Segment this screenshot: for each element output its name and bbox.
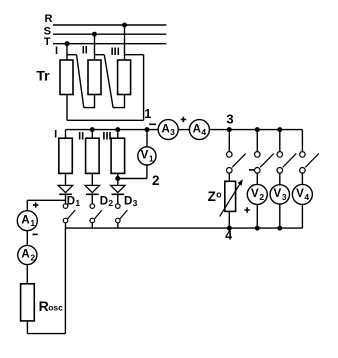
svg-text:Tr: Tr bbox=[36, 67, 50, 83]
ammeter A3 bbox=[158, 120, 178, 140]
svg-text:A: A bbox=[21, 214, 29, 226]
wire node2 horizontal bbox=[118, 178, 147, 180]
svg-text:3: 3 bbox=[226, 112, 233, 127]
wire V3 bottom lead bbox=[279, 204, 281, 228]
plus sign A4 bbox=[181, 117, 186, 122]
voltmeter V4 bbox=[292, 184, 312, 204]
primary winding III bbox=[118, 60, 131, 95]
junction dot node 1 bbox=[145, 127, 150, 132]
impedance Zo box bbox=[225, 181, 236, 211]
label Rosc bbox=[39, 298, 64, 314]
svg-text:V: V bbox=[251, 188, 259, 200]
svg-text:A: A bbox=[193, 123, 201, 135]
resistor Rosc bbox=[21, 284, 35, 321]
switch S-D3 bbox=[116, 204, 128, 228]
wire V2 bottom lead bbox=[256, 204, 258, 228]
wire tap I from T bbox=[66, 44, 68, 60]
svg-text:1: 1 bbox=[30, 218, 35, 228]
wire U-link I-II bbox=[84, 95, 95, 108]
svg-text:3: 3 bbox=[282, 192, 287, 202]
secondary winding II bbox=[86, 138, 100, 173]
minus sign A3 bbox=[149, 123, 156, 125]
svg-text:I: I bbox=[55, 45, 58, 57]
wire A3-A4 link bbox=[178, 129, 190, 131]
junction dot node3 V2 bbox=[255, 127, 260, 132]
junction dot on T line bbox=[65, 41, 70, 46]
svg-text:4: 4 bbox=[304, 192, 309, 202]
wire A2-Rosc link bbox=[26, 264, 28, 283]
ammeter A2 bbox=[18, 245, 37, 264]
svg-text:V: V bbox=[296, 188, 304, 200]
minus sign V2 bbox=[249, 169, 254, 171]
wire secondary I top lead bbox=[65, 130, 67, 139]
svg-text:2: 2 bbox=[108, 198, 113, 208]
svg-text:D: D bbox=[124, 195, 132, 207]
svg-text:4: 4 bbox=[201, 127, 206, 137]
wire jog winding III bbox=[125, 54, 144, 56]
voltmeter V2 bbox=[247, 184, 267, 204]
wire delta right side bbox=[143, 55, 145, 121]
plus sign V2 bbox=[244, 207, 249, 212]
junction dot on R line bbox=[122, 23, 127, 28]
wire secondary III top lead bbox=[117, 130, 119, 139]
svg-text:2: 2 bbox=[30, 252, 35, 262]
wire node1 rail bbox=[66, 129, 159, 131]
svg-text:1: 1 bbox=[144, 107, 151, 121]
switch S-D2 bbox=[90, 204, 102, 228]
wire jog winding I bbox=[67, 54, 77, 56]
wire A1 top stem bbox=[26, 200, 28, 211]
junction dot node 2 bbox=[115, 176, 120, 181]
impedance Zo arrow bbox=[220, 179, 243, 216]
svg-text:D: D bbox=[100, 195, 108, 207]
switch S-Zo bbox=[227, 130, 246, 182]
svg-text:1: 1 bbox=[149, 154, 154, 164]
switch S-D1 bbox=[63, 204, 75, 228]
junction dot on S line bbox=[92, 32, 97, 37]
wire A1-A2 link bbox=[26, 230, 28, 245]
svg-text:V: V bbox=[141, 150, 149, 162]
wire A1 top horizontal bbox=[27, 199, 65, 201]
switch S-V4 bbox=[300, 130, 319, 185]
wire Zo bottom lead bbox=[228, 211, 230, 228]
diode D2 bbox=[85, 185, 99, 203]
wire diagonal I-II bbox=[77, 55, 84, 108]
svg-text:R: R bbox=[45, 13, 53, 25]
junction dot secondary II bbox=[90, 127, 95, 132]
junction dot node3 Zo bbox=[227, 127, 232, 132]
label Zo bbox=[208, 189, 223, 204]
wire V1 bottom stem bbox=[146, 165, 148, 179]
wire delta bottom bbox=[67, 119, 144, 121]
diode D1 bbox=[58, 185, 72, 203]
svg-text:I: I bbox=[54, 129, 57, 141]
svg-text:4: 4 bbox=[225, 229, 232, 243]
svg-text:o: o bbox=[216, 189, 222, 199]
wire U-link II-III bbox=[113, 95, 124, 108]
svg-text:V: V bbox=[273, 188, 281, 200]
svg-text:A: A bbox=[161, 123, 169, 135]
minus sign A1 bbox=[33, 233, 38, 235]
voltmeter V3 bbox=[270, 185, 289, 204]
junction dot rail V2 bbox=[255, 226, 260, 231]
voltmeter V1 bbox=[138, 147, 156, 165]
svg-text:2: 2 bbox=[152, 173, 160, 188]
switch S-V2 bbox=[254, 130, 273, 185]
svg-text:osc: osc bbox=[48, 303, 63, 313]
label D1 bbox=[67, 195, 81, 208]
svg-text:Z: Z bbox=[208, 189, 216, 204]
svg-text:II: II bbox=[82, 45, 88, 57]
ammeter A4 bbox=[189, 120, 209, 140]
svg-text:1: 1 bbox=[75, 198, 80, 208]
secondary winding I bbox=[59, 138, 73, 173]
phase line T bbox=[53, 43, 166, 45]
wire secondary III bottom lead bbox=[117, 173, 119, 185]
wire diagonal II-III bbox=[104, 55, 113, 108]
junction dot secondary III bbox=[115, 127, 120, 132]
svg-text:T: T bbox=[44, 36, 51, 48]
secondary winding III bbox=[111, 138, 125, 173]
svg-text:2: 2 bbox=[259, 192, 264, 202]
diode D3 bbox=[111, 185, 125, 203]
svg-text:III: III bbox=[102, 131, 111, 143]
wire bottom return horizontal bbox=[27, 333, 65, 335]
phase line S bbox=[53, 33, 166, 35]
plus sign A1 bbox=[33, 202, 38, 207]
label D2 bbox=[100, 195, 114, 208]
svg-text:3: 3 bbox=[133, 198, 138, 208]
svg-text:A: A bbox=[21, 249, 29, 261]
svg-text:III: III bbox=[111, 46, 120, 58]
wire secondary I bottom lead bbox=[65, 173, 67, 185]
junction dot rail Zo bbox=[227, 226, 232, 231]
wire node3 rail bbox=[209, 129, 302, 131]
wire V1 top stem bbox=[146, 130, 148, 147]
primary winding II bbox=[88, 60, 101, 95]
wire tap II from S bbox=[94, 34, 96, 60]
wire winding I bottom lead bbox=[66, 95, 68, 121]
wire node4 rail bbox=[65, 227, 302, 229]
wire jog winding II bbox=[95, 54, 105, 56]
wire bottom return vertical bbox=[64, 228, 66, 334]
junction dot rail V3 bbox=[277, 226, 282, 231]
wire secondary II top lead bbox=[91, 130, 93, 139]
svg-text:II: II bbox=[78, 131, 84, 143]
switch S-V3 bbox=[277, 130, 296, 185]
wire tap III from R bbox=[124, 25, 126, 60]
primary winding I bbox=[60, 60, 73, 95]
wire V4 bottom lead bbox=[301, 204, 303, 228]
label D3 bbox=[124, 195, 138, 208]
wire secondary II bottom lead bbox=[91, 173, 93, 185]
phase line R bbox=[53, 24, 166, 26]
svg-text:3: 3 bbox=[170, 127, 175, 137]
ammeter A1 bbox=[17, 211, 37, 231]
wire Rosc bottom stem bbox=[26, 321, 28, 334]
junction dot node3 V3 bbox=[277, 127, 282, 132]
